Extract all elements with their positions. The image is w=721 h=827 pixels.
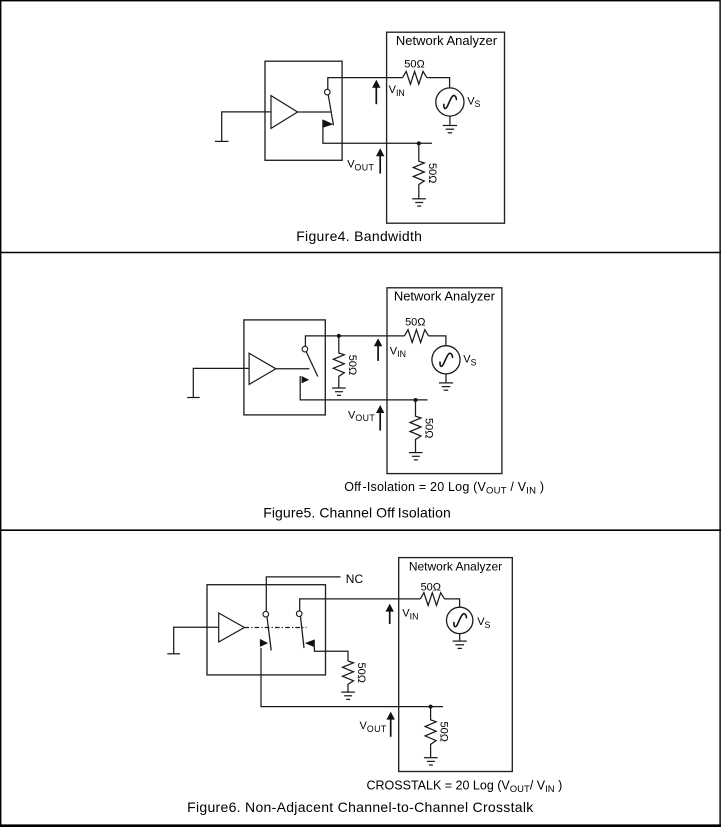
junction node dot	[417, 141, 421, 145]
input wire	[193, 368, 249, 397]
svg-text:Network Analyzer: Network Analyzer	[394, 289, 496, 304]
label 50 ohm R7	[421, 581, 441, 593]
label 50 ohm R5 rotated	[423, 418, 435, 438]
ground GND7 under R5	[409, 453, 423, 460]
ground GND11 under R8	[424, 758, 438, 765]
source VS2 circle	[432, 346, 460, 374]
switch S3 output contact arrow	[260, 639, 268, 647]
svg-text:Network Analyzer: Network Analyzer	[409, 560, 502, 574]
label V_IN	[402, 608, 418, 622]
svg-text:VS: VS	[467, 95, 480, 109]
svg-text:50Ω: 50Ω	[426, 163, 438, 183]
ground GND9 under R6	[341, 692, 355, 699]
input wire	[222, 112, 271, 141]
wire resistor to source	[429, 336, 446, 346]
label V_OUT	[347, 159, 374, 173]
buffer amplifier A1	[271, 96, 298, 129]
svg-text:Figure4. Bandwidth: Figure4. Bandwidth	[296, 228, 422, 244]
svg-text:VIN: VIN	[390, 345, 406, 359]
V_OUT arrow	[376, 405, 384, 431]
source VS3 sine symbol	[454, 614, 467, 627]
wire resistor to source	[427, 78, 450, 88]
V_OUT arrow	[387, 712, 395, 737]
wire buffer output (open)	[276, 368, 310, 370]
source VS3 circle	[447, 607, 473, 633]
DUT box U1	[265, 61, 342, 160]
resistor R7 50 ohm series analyzer	[420, 593, 444, 606]
svg-text:Figure5. Channel Off Isolation: Figure5. Channel Off Isolation	[263, 505, 451, 521]
wire V_OUT net	[261, 648, 443, 707]
svg-text:Network Analyzer: Network Analyzer	[396, 33, 498, 48]
svg-text:50Ω: 50Ω	[423, 418, 435, 438]
svg-text:VS: VS	[463, 354, 476, 368]
svg-text:VOUT: VOUT	[347, 159, 374, 173]
svg-text:VOUT: VOUT	[360, 720, 387, 734]
wire resistor to source	[445, 599, 460, 608]
svg-text:Figure6. Non-Adjacent Channel-: Figure6. Non-Adjacent Channel-to-Channel…	[187, 799, 534, 815]
DUT box U2	[244, 320, 325, 415]
switch S4 output contact arrow (mirrored)	[305, 639, 315, 647]
caption Figure4	[296, 228, 422, 244]
wire V_IN net: contact stem to analyzer resistor	[328, 78, 403, 90]
label V_S	[467, 95, 480, 109]
switch S1 NC contact circle	[325, 89, 331, 95]
label 50 ohm R8 rotated	[438, 722, 450, 742]
label 50 ohm R2 rotated	[426, 163, 438, 183]
wire S4 contact to V_IN net	[300, 599, 421, 611]
wire buffer output to switch pole	[298, 111, 331, 113]
svg-text:50Ω: 50Ω	[404, 58, 424, 70]
resistor R1 50 ohm series	[403, 71, 427, 84]
svg-text:50Ω: 50Ω	[421, 581, 441, 593]
ground GND1 input	[215, 140, 229, 142]
svg-text:CROSSTALK = 20 Log (VOUT/ VIN: CROSSTALK = 20 Log (VOUT/ VIN )	[367, 779, 563, 795]
label V_IN	[389, 84, 405, 98]
switch S2 NC contact circle	[302, 346, 308, 352]
label V_OUT	[348, 409, 375, 423]
label Network Analyzer	[396, 33, 498, 48]
label Network Analyzer	[409, 560, 502, 574]
label V_OUT	[360, 720, 387, 734]
svg-text:VIN: VIN	[402, 608, 418, 622]
junction node dot	[429, 705, 433, 709]
resistor R6 50 ohm load	[343, 661, 354, 692]
switch S3 blade	[267, 617, 271, 651]
V_IN arrow	[374, 338, 382, 361]
wire S4 contact to load resistor	[314, 647, 348, 661]
svg-text:Off -Isolation = 20 Log (VOUT: Off -Isolation = 20 Log (VOUT / VIN )	[344, 480, 544, 496]
switch S3 NC contact circle	[263, 611, 269, 617]
ground GND3 under R2	[412, 199, 426, 206]
svg-text:NC: NC	[346, 572, 364, 586]
ground GND10 under source	[453, 634, 467, 649]
wire NC contact to V_IN net	[305, 336, 404, 346]
label V_S	[463, 354, 476, 368]
label Network Analyzer	[394, 289, 496, 304]
wire NC contact to NC label	[266, 577, 340, 612]
resistor R3 50 ohm load	[333, 336, 344, 388]
source VS2 sine symbol	[440, 353, 453, 366]
ground GND2 under source	[443, 116, 457, 133]
label 50 ohm R4	[405, 317, 425, 329]
caption Figure5	[263, 505, 451, 521]
switch S1 output contact arrow	[323, 120, 333, 128]
wire V_OUT net	[323, 120, 432, 144]
resistor R5 50 ohm shunt	[410, 400, 421, 452]
label 50 ohm R6 rotated	[355, 663, 367, 683]
DUT box U3	[207, 585, 326, 675]
caption Figure6	[187, 799, 534, 815]
svg-text:VIN: VIN	[389, 84, 405, 98]
V_IN arrow	[372, 80, 380, 105]
ground GND5 under R3	[332, 388, 346, 395]
svg-text:VS: VS	[477, 616, 490, 630]
svg-text:50Ω: 50Ω	[405, 317, 425, 329]
formula off-isolation	[344, 480, 544, 496]
label NC	[346, 572, 364, 586]
resistor R8 50 ohm shunt	[425, 707, 436, 758]
switch S4 NO contact circle	[296, 611, 302, 617]
source VS1 sine symbol	[444, 95, 457, 108]
network analyzer box	[387, 288, 502, 474]
ground GND4 input	[187, 397, 200, 399]
svg-text:50Ω: 50Ω	[346, 355, 358, 375]
buffer amplifier A2	[249, 353, 276, 384]
label 50 ohm R1	[404, 58, 424, 70]
resistor R4 50 ohm series analyzer	[404, 330, 428, 343]
ground GND8 input	[167, 653, 180, 655]
buffer amplifier A3	[219, 613, 245, 642]
svg-text:50Ω: 50Ω	[438, 722, 450, 742]
ganged switch linkage dash-dot	[244, 627, 306, 629]
svg-text:VOUT: VOUT	[348, 409, 375, 423]
input wire	[174, 627, 219, 653]
wire V_OUT net	[300, 376, 427, 400]
switch S1 blade	[328, 95, 333, 126]
V_IN arrow	[386, 604, 394, 624]
junction node load resistor	[337, 334, 341, 338]
formula crosstalk	[367, 779, 563, 795]
junction node dot	[414, 398, 418, 402]
svg-text:50Ω: 50Ω	[355, 663, 367, 683]
V_OUT arrow	[376, 148, 384, 173]
switch S2 blade (open)	[306, 352, 318, 377]
switch S4 blade	[301, 617, 305, 649]
network analyzer box	[399, 558, 513, 772]
switch S2 output contact arrow	[302, 376, 310, 383]
ground GND6 under source	[439, 374, 453, 390]
label 50 ohm R3 rotated	[346, 355, 358, 375]
label V_IN	[390, 345, 406, 359]
resistor R2 50 ohm shunt	[413, 143, 424, 198]
source VS1 circle	[436, 88, 464, 116]
network analyzer box	[387, 32, 505, 223]
label V_S	[477, 616, 490, 630]
